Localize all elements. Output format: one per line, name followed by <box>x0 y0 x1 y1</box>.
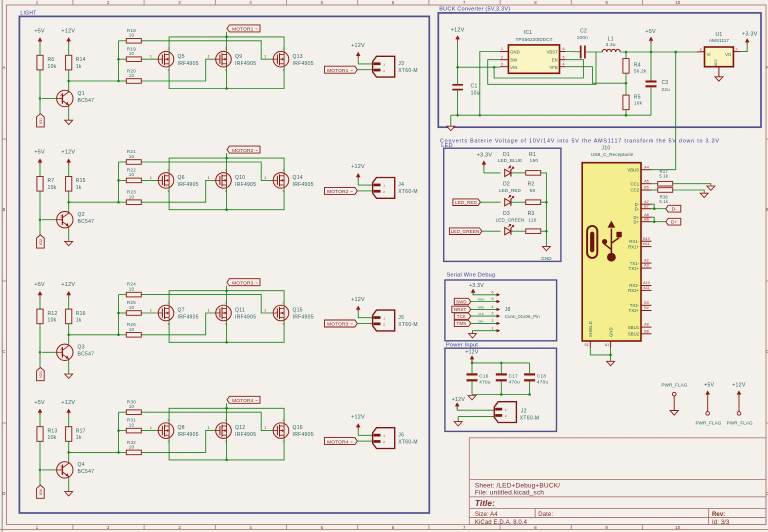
pin 2 (J8) <box>492 319 501 325</box>
svg-text:R6: R6 <box>48 57 55 63</box>
svg-text:R17: R17 <box>76 428 86 434</box>
svg-text:IRF4905: IRF4905 <box>235 432 256 438</box>
pin B6 D+ (USB) <box>634 217 652 224</box>
svg-text:BC547: BC547 <box>78 98 95 104</box>
svg-text:TPS56220IDDCT: TPS56220IDDCT <box>515 37 552 42</box>
power +5V (MOTOR3 driver) <box>34 282 45 309</box>
wire D3 to R3 <box>511 230 525 232</box>
svg-text:S1: S1 <box>584 343 588 347</box>
power +12V (MOTOR4 driver) <box>61 400 75 427</box>
svg-text:RX2+: RX2+ <box>628 288 639 293</box>
svg-text:Q11: Q11 <box>235 308 245 314</box>
svg-text:IO3: IO3 <box>39 371 43 377</box>
ground (CC1) <box>707 186 715 190</box>
wire gate-resistor bus (MOTOR4) <box>117 412 126 453</box>
pin B8 SBU2 (USB) <box>628 329 652 336</box>
svg-text:Q1: Q1 <box>78 91 85 97</box>
pin S1 SHIELD (USB) <box>584 321 593 347</box>
power +12V (MOTOR3 connector) <box>351 297 372 318</box>
transistor Q4 BC547 <box>42 462 94 478</box>
svg-text:+12V: +12V <box>351 164 365 170</box>
wire J8 pin1 to ground <box>473 331 497 334</box>
svg-text:+3.3V: +3.3V <box>469 283 484 289</box>
svg-text:3: 3 <box>492 312 494 316</box>
power +5V (MOTOR4 driver) <box>34 400 45 427</box>
resistor R21 10 <box>126 149 141 164</box>
svg-text:SBU1: SBU1 <box>628 325 640 330</box>
svg-text:J4: J4 <box>398 182 404 188</box>
svg-text:10: 10 <box>129 422 135 427</box>
svg-text:MOTOR3 ~: MOTOR3 ~ <box>327 322 353 328</box>
wire gate-resistor bus (MOTOR3) <box>117 295 126 336</box>
svg-text:R3: R3 <box>528 211 535 217</box>
svg-text:B: B <box>2 207 5 212</box>
svg-text:Id: 3/3: Id: 3/3 <box>712 520 730 526</box>
ground (emitter Q2) <box>65 241 73 245</box>
resistor R18 10 <box>126 28 141 43</box>
svg-text:B10: B10 <box>643 237 649 241</box>
svg-text:SHIELD: SHIELD <box>588 321 593 337</box>
svg-text:A6: A6 <box>644 213 648 217</box>
svg-text:TX2+: TX2+ <box>629 308 640 313</box>
svg-text:MOTOR3 ~: MOTOR3 ~ <box>232 280 258 286</box>
power flag +5V <box>695 382 721 425</box>
hierarchical tag IO3 <box>37 368 45 381</box>
power flag PWR_FLAG (gnd) <box>661 382 687 415</box>
svg-text:MOTOR4 ~: MOTOR4 ~ <box>232 398 258 404</box>
wire to AMS1117 input <box>697 51 705 53</box>
power +12V (power input) <box>465 349 479 373</box>
svg-text:Q9: Q9 <box>235 54 242 60</box>
svg-text:Conn_01x06_Pin: Conn_01x06_Pin <box>505 314 541 319</box>
transistor Q10 IRF4905 <box>208 168 257 193</box>
svg-text:SWO: SWO <box>478 298 486 302</box>
svg-text:PWR_FLAG: PWR_FLAG <box>727 421 753 426</box>
resistor R32 10 <box>126 440 141 455</box>
LED D2 LED_RED <box>499 181 521 205</box>
ground (USB) <box>607 361 615 365</box>
resistor R20 10 <box>126 68 141 83</box>
section box LED <box>444 148 561 261</box>
svg-text:+5V: +5V <box>34 28 45 34</box>
svg-text:TMS: TMS <box>457 321 467 326</box>
svg-text:100n: 100n <box>577 35 589 40</box>
svg-text:Q16: Q16 <box>293 425 303 431</box>
ground (emitter Q3) <box>65 374 73 378</box>
transistor Q16 IRF4905 <box>264 418 314 443</box>
wire R13 to base and IO4 <box>39 441 42 485</box>
global label MOTOR3 (connector) <box>325 320 373 328</box>
svg-text:5.1k: 5.1k <box>659 174 669 179</box>
svg-text:A11: A11 <box>643 286 649 290</box>
wire D+ pair <box>652 217 666 223</box>
svg-text:SW: SW <box>510 58 517 63</box>
wire gate-resistor bus (MOTOR2) <box>117 162 126 203</box>
svg-text:10: 10 <box>129 305 135 310</box>
wire +5V to VBUS <box>652 52 676 170</box>
transistor Q9 IRF4905 <box>208 47 257 72</box>
svg-text:NRST: NRST <box>454 307 467 312</box>
svg-text:PWR_FLAG: PWR_FLAG <box>661 382 687 387</box>
title block <box>469 438 766 526</box>
svg-text:B2: B2 <box>644 306 648 310</box>
wire USB shield to ground <box>590 348 612 362</box>
svg-text:LED_BLUE: LED_BLUE <box>498 158 522 163</box>
global label D+ <box>666 218 681 225</box>
transistor Q12 IRF4905 <box>208 418 257 443</box>
USB logo <box>587 221 622 262</box>
svg-text:Q10: Q10 <box>235 175 245 181</box>
svg-text:+3.3V: +3.3V <box>477 153 493 159</box>
transistor Q5 IRF4905 <box>150 47 199 72</box>
svg-text:+12V: +12V <box>465 349 479 355</box>
ground (SWD) <box>469 334 477 338</box>
global label MOTOR2 (connector) <box>325 187 373 195</box>
pin A5 CC1 (USB) <box>631 179 652 186</box>
svg-text:Q4: Q4 <box>78 462 85 468</box>
wire R6 to base and IO1 <box>39 70 42 114</box>
svg-text:File: untitled.kicad_sch: File: untitled.kicad_sch <box>475 490 544 497</box>
wire R18 to Q13 gate <box>141 41 273 59</box>
pin A3 TX1+ (USB) <box>629 264 652 271</box>
svg-text:5: 5 <box>563 55 565 59</box>
wire emitter of Q3 to ground <box>68 361 70 374</box>
svg-text:1k: 1k <box>76 64 82 70</box>
svg-text:6: 6 <box>563 47 565 51</box>
svg-text:PWR_FLAG: PWR_FLAG <box>695 421 721 426</box>
svg-text:10k: 10k <box>48 435 57 441</box>
wire R25 to Q7 gate <box>141 312 158 314</box>
svg-text:Converts Baterie Voltage of 10: Converts Baterie Voltage of 10V/14V into… <box>440 139 720 145</box>
svg-text:SBU2: SBU2 <box>628 332 640 337</box>
wire SW node <box>488 52 596 84</box>
svg-text:10: 10 <box>129 404 135 409</box>
svg-text:LED: LED <box>441 143 452 149</box>
hierarchical tag IO1 <box>37 114 45 127</box>
svg-text:B6: B6 <box>644 217 648 221</box>
transistor Q3 BC547 <box>42 344 94 360</box>
svg-text:Date:: Date: <box>538 512 553 518</box>
svg-text:D+: D+ <box>634 219 640 224</box>
wire R7 to base and IO2 <box>39 191 42 235</box>
svg-text:10: 10 <box>675 525 680 530</box>
svg-text:SWD: SWD <box>456 299 467 304</box>
section box Serial Wire Debug <box>445 280 557 341</box>
svg-text:IRF4905: IRF4905 <box>178 182 199 188</box>
svg-text:KiCad E.D.A. 8.0.4: KiCad E.D.A. 8.0.4 <box>475 520 528 526</box>
capacitor C1 10u <box>452 83 480 115</box>
svg-text:+5V: +5V <box>34 282 45 288</box>
svg-text:4: 4 <box>563 62 565 66</box>
resistor R3 110 <box>526 211 541 233</box>
svg-text:C16: C16 <box>479 374 488 379</box>
resistor R17 5.1k (CC1) <box>652 169 673 186</box>
svg-text:Q7: Q7 <box>178 308 185 314</box>
svg-text:B5: B5 <box>644 186 648 190</box>
pin A10 RX2- (USB) <box>629 281 651 288</box>
wire C2 to L1 <box>586 51 603 53</box>
svg-text:+12V: +12V <box>351 43 365 49</box>
wire filter cap top rail <box>471 362 530 374</box>
wire top rail MOTOR1 <box>169 32 284 52</box>
pin B2 TX2+ (USB) <box>629 306 652 313</box>
svg-text:10: 10 <box>129 286 135 291</box>
svg-text:+12V: +12V <box>61 150 75 156</box>
power +12V (MOTOR1 driver) <box>61 28 75 55</box>
power +12V (MOTOR3 driver) <box>61 282 75 309</box>
svg-text:R1: R1 <box>529 152 536 158</box>
svg-text:Serial Wire Debug: Serial Wire Debug <box>447 272 496 278</box>
svg-text:RX1+: RX1+ <box>628 244 639 249</box>
svg-text:MOTOR2 ~: MOTOR2 ~ <box>232 148 258 154</box>
svg-text:Q3: Q3 <box>78 345 85 351</box>
svg-text:10: 10 <box>129 172 135 177</box>
svg-text:10k: 10k <box>48 64 57 70</box>
svg-text:+5V: +5V <box>34 150 45 156</box>
connector J2 XT60-M <box>494 402 539 423</box>
svg-text:MOTOR4 ~: MOTOR4 ~ <box>327 439 353 445</box>
ground (U1) <box>715 77 723 81</box>
svg-text:IC1: IC1 <box>524 30 533 36</box>
transistor Q1 BC547 <box>42 90 94 106</box>
svg-text:A4: A4 <box>644 165 648 169</box>
svg-text:IRF4905: IRF4905 <box>178 61 199 67</box>
svg-text:CC1: CC1 <box>631 181 640 186</box>
svg-text:A1: A1 <box>605 343 609 347</box>
svg-text:470u: 470u <box>509 380 521 385</box>
svg-text:B8: B8 <box>644 329 648 333</box>
svg-text:R2: R2 <box>528 181 535 187</box>
svg-text:CLK: CLK <box>478 312 484 316</box>
global label NRST <box>452 306 496 313</box>
global label TCK <box>454 312 496 319</box>
svg-text:10k: 10k <box>48 185 57 191</box>
ground (J2) <box>454 422 462 426</box>
transistor Q8 IRF4905 <box>150 418 199 443</box>
wire output rail 5V <box>620 51 697 54</box>
svg-text:USB_C_Receptacle: USB_C_Receptacle <box>591 152 634 157</box>
resistor R19 10 <box>126 46 141 61</box>
pin 1 (J8) <box>492 326 501 332</box>
svg-text:1k: 1k <box>76 185 82 191</box>
section box LIGHT <box>19 16 429 513</box>
resistor R2 68 <box>526 181 541 204</box>
wire top rail MOTOR4 <box>169 403 284 423</box>
svg-text:10u: 10u <box>471 90 480 96</box>
svg-text:EN: EN <box>552 58 558 63</box>
svg-text:10k: 10k <box>48 318 57 324</box>
svg-text:2: 2 <box>501 55 503 59</box>
connector J4 XT60-M <box>373 178 418 199</box>
svg-text:10: 10 <box>129 73 135 78</box>
svg-text:J2: J2 <box>521 408 527 414</box>
svg-text:IRF4905: IRF4905 <box>235 61 256 67</box>
svg-text:D-: D- <box>635 206 640 211</box>
resistor R23 10 <box>126 190 141 205</box>
global label D- <box>666 205 681 212</box>
power +12V (MOTOR2 driver) <box>61 150 75 177</box>
svg-text:110: 110 <box>528 218 536 223</box>
pin A6 D+ (USB) <box>634 213 652 220</box>
connector J3 XT60-M <box>373 56 418 77</box>
transistor Q13 IRF4905 <box>264 47 314 72</box>
power +12V (MOTOR1 connector) <box>351 43 372 64</box>
svg-text:3: 3 <box>700 47 702 51</box>
global label MOTOR1 (top) <box>227 25 260 33</box>
wire R12 to base and IO3 <box>39 324 42 368</box>
svg-text:R7: R7 <box>48 178 55 184</box>
resistor R12 10k <box>37 309 58 324</box>
wire R16 to collector node <box>67 324 118 344</box>
svg-text:IO4: IO4 <box>39 489 43 495</box>
LED D3 LED_GREEN <box>496 211 525 235</box>
hierarchical tag IO4 <box>37 485 45 498</box>
local label LED_RED <box>453 199 501 206</box>
svg-text:A3: A3 <box>644 264 648 268</box>
svg-text:190: 190 <box>530 158 539 163</box>
wire bottom rail MOTOR3 <box>169 320 284 343</box>
wire bottom rail MOTOR4 <box>169 438 284 461</box>
capacitor C16 470u <box>467 374 491 395</box>
svg-text:B11: B11 <box>643 242 649 246</box>
ground (power input) <box>468 396 476 400</box>
svg-text:10: 10 <box>675 0 680 5</box>
resistor R26 10 <box>126 322 141 337</box>
svg-text:VFB: VFB <box>549 65 558 70</box>
connector J5 XT60-M <box>373 310 418 331</box>
wire VIN rail <box>456 66 499 69</box>
svg-text:XT60-M: XT60-M <box>398 68 418 74</box>
svg-text:XT60-M: XT60-M <box>398 439 418 445</box>
svg-text:1: 1 <box>492 326 494 330</box>
svg-text:10: 10 <box>129 33 135 38</box>
svg-text:CC2: CC2 <box>631 188 640 193</box>
svg-text:22u: 22u <box>662 87 671 92</box>
svg-text:D1: D1 <box>503 152 510 158</box>
svg-text:Rev:: Rev: <box>712 512 725 518</box>
svg-text:R5: R5 <box>634 94 641 100</box>
power +3.3V (LED) <box>477 153 501 173</box>
svg-text:VI: VI <box>707 52 711 57</box>
wire R23 to Q10 gate <box>141 180 215 202</box>
svg-text:VO: VO <box>725 52 732 57</box>
svg-text:VBST: VBST <box>546 50 558 55</box>
svg-text:A8: A8 <box>644 323 648 327</box>
regulator U1 AMS1117 <box>700 32 741 67</box>
svg-text:XT60-M: XT60-M <box>520 415 540 421</box>
svg-text:6: 6 <box>492 290 494 294</box>
section box BUCK Converter <box>438 13 761 127</box>
svg-text:Q12: Q12 <box>235 425 245 431</box>
wire emitter of Q4 to ground <box>68 478 70 491</box>
pin B7 D- (USB) <box>635 204 652 211</box>
resistor R38 5.1k (CC2) <box>652 188 673 204</box>
svg-text:IO2: IO2 <box>39 239 43 245</box>
wire VBST to C2 <box>565 51 580 53</box>
svg-text:+5V: +5V <box>645 29 656 35</box>
power +12V (buck input) <box>451 28 465 85</box>
power +5V (MOTOR2 driver) <box>34 150 45 177</box>
power +12V (MOTOR4 connector) <box>351 414 372 435</box>
pin A11 RX2+ (USB) <box>628 286 651 293</box>
svg-text:C: C <box>2 349 5 354</box>
svg-text:Size: A4: Size: A4 <box>475 512 498 518</box>
svg-text:LED_GREEN: LED_GREEN <box>496 218 525 223</box>
pin B11 RX1+ (USB) <box>628 242 651 249</box>
svg-text:MOTOR1 ~: MOTOR1 ~ <box>327 68 353 74</box>
pin B5 CC2 (USB) <box>631 186 652 193</box>
svg-text:D-: D- <box>672 207 678 213</box>
svg-text:LED_RED: LED_RED <box>455 200 477 205</box>
svg-text:+12V: +12V <box>732 382 746 388</box>
svg-text:J5: J5 <box>398 315 404 321</box>
svg-text:IRF4905: IRF4905 <box>293 432 314 438</box>
svg-text:Sheet: /LED+Debug+BUCK/: Sheet: /LED+Debug+BUCK/ <box>475 483 560 490</box>
svg-text:J3: J3 <box>398 61 404 67</box>
svg-text:D: D <box>2 491 5 496</box>
pin 4 (J8) <box>492 305 501 311</box>
capacitor C17 470u <box>496 374 520 395</box>
pin B3 TX2- (USB) <box>630 301 652 308</box>
wire R14 to collector node <box>67 70 118 90</box>
svg-text:D3: D3 <box>503 211 510 217</box>
power +3.3V (buck output) <box>740 31 758 51</box>
svg-text:10: 10 <box>129 154 135 159</box>
svg-text:BC547: BC547 <box>78 219 95 225</box>
resistor R6 10k <box>37 55 57 70</box>
LED D1 LED_BLUE <box>498 152 522 177</box>
resistor R15 1k <box>66 177 86 192</box>
svg-text:J6: J6 <box>398 432 404 438</box>
inductor L1 3.3u <box>602 37 620 53</box>
svg-text:R16: R16 <box>76 311 86 317</box>
wire filter cap bottom rail <box>472 393 531 396</box>
wire R19 to Q5 gate <box>141 58 158 60</box>
svg-text:56.2k: 56.2k <box>634 69 647 74</box>
svg-text:IRF4905: IRF4905 <box>293 315 314 321</box>
svg-text:C17: C17 <box>509 374 518 379</box>
svg-text:+3.3V: +3.3V <box>742 31 758 37</box>
wire GND pin to ground rail <box>480 52 500 116</box>
resistor R17 1k <box>66 427 86 442</box>
svg-text:+12V: +12V <box>451 28 465 34</box>
power flag +12V <box>727 382 753 425</box>
resistor R31 10 <box>126 418 141 433</box>
svg-text:1: 1 <box>501 47 503 51</box>
wire EN tie to VIN <box>494 60 583 78</box>
svg-text:+5V: +5V <box>34 400 45 406</box>
svg-text:LIGHT: LIGHT <box>20 11 36 17</box>
svg-text:C18: C18 <box>537 374 546 379</box>
svg-text:1k: 1k <box>76 318 82 324</box>
svg-text:TCK: TCK <box>457 314 466 319</box>
power +12V (J2) <box>452 397 495 410</box>
svg-text:3.3u: 3.3u <box>606 42 616 47</box>
pin B10 RX1- (USB) <box>629 237 651 244</box>
svg-text:Q2: Q2 <box>78 212 85 218</box>
wire D2 to R2 <box>511 201 525 203</box>
pin A7 D- (USB) <box>635 200 652 207</box>
ground (emitter Q1) <box>65 120 73 124</box>
wire R17 to collector node <box>67 441 118 461</box>
capacitor C18 470u <box>524 374 548 395</box>
svg-text:LED_GREEN: LED_GREEN <box>451 229 480 234</box>
svg-text:IO1: IO1 <box>39 118 43 124</box>
svg-text:GND: GND <box>510 50 520 55</box>
hierarchical tag IO2 <box>37 235 45 248</box>
svg-text:C3: C3 <box>662 80 669 86</box>
svg-text:A2: A2 <box>644 259 648 263</box>
